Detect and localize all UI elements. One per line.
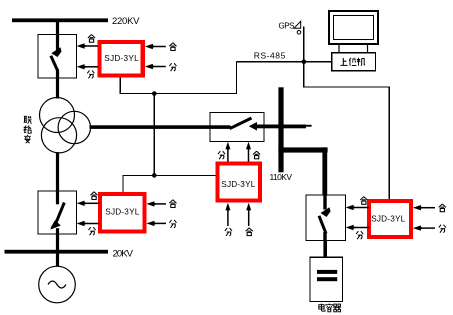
svg-text:110KV: 110KV — [270, 172, 293, 182]
svg-text:SJD-3YL: SJD-3YL — [105, 208, 139, 217]
svg-text:220KV: 220KV — [112, 16, 140, 27]
svg-text:20KV: 20KV — [113, 249, 134, 260]
svg-text:SJD-3YL: SJD-3YL — [221, 180, 255, 189]
svg-text:RS-485: RS-485 — [254, 51, 286, 61]
svg-text:SJD-3YL: SJD-3YL — [371, 215, 405, 224]
svg-text:SJD-3YL: SJD-3YL — [104, 54, 139, 63]
svg-text:GPS: GPS — [279, 22, 295, 31]
